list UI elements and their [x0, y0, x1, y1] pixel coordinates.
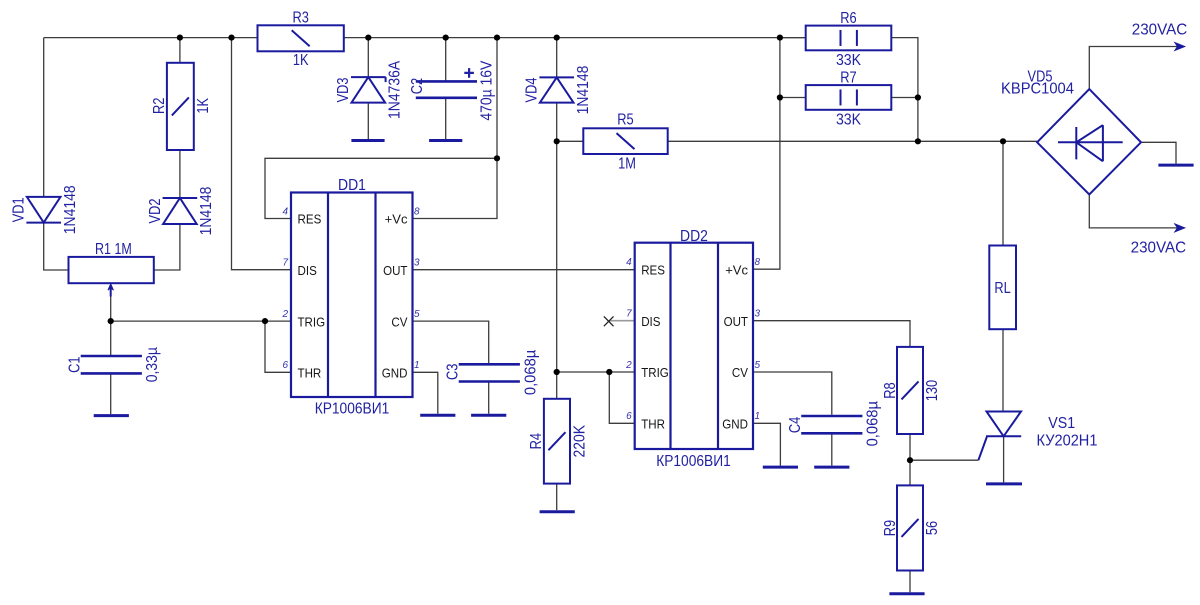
arrow 230VAC top: [1175, 43, 1184, 50]
svg-text:DIS: DIS: [641, 314, 661, 329]
wire: GND2 to ground: [753, 423, 780, 465]
ground (VD3): [351, 139, 384, 142]
wire: Vcc loop vertical: [413, 38, 498, 219]
svg-text:RES: RES: [641, 262, 665, 277]
wire: C2 to ground: [445, 98, 447, 139]
wire: bridge right to ground: [1141, 142, 1176, 163]
svg-text:OUT: OUT: [724, 314, 748, 329]
resistor R6: [806, 26, 892, 51]
svg-text:+Vc: +Vc: [385, 212, 408, 227]
svg-text:C1: C1: [66, 356, 83, 372]
ground (C4): [814, 466, 849, 469]
wire: left vertical to VD1: [43, 38, 45, 197]
svg-text:R7: R7: [840, 69, 856, 86]
wire: THR1 loop: [265, 321, 291, 372]
node: RL tap: [1000, 138, 1006, 144]
wire: R4 to ground: [556, 484, 558, 511]
svg-text:6: 6: [626, 411, 632, 422]
svg-text:0,068µ: 0,068µ: [522, 350, 539, 395]
svg-text:1N4736A: 1N4736A: [386, 61, 403, 119]
wire: R1 wiper shaft: [110, 297, 112, 322]
wire: C1 to ground: [110, 373, 112, 414]
svg-text:VD3: VD3: [335, 77, 352, 102]
load RL: [989, 246, 1016, 330]
wire: CV2 to C4: [753, 372, 832, 415]
node: DIS1/top rail: [228, 35, 234, 41]
svg-text:R3: R3: [293, 10, 309, 27]
svg-text:0,068µ: 0,068µ: [864, 401, 881, 446]
wire: C3 to ground: [488, 382, 490, 414]
node: R2/top rail: [177, 35, 183, 41]
svg-text:130: 130: [924, 380, 941, 401]
wire: VD2 bottom to R1 right: [154, 224, 180, 270]
svg-text:R9: R9: [882, 520, 899, 536]
capacitor C2: [416, 80, 477, 83]
arrow 230VAC bottom: [1175, 224, 1184, 231]
node: R5 left: [554, 138, 560, 144]
node: R7 left: [777, 94, 783, 100]
node: R8/R9/gate: [907, 457, 913, 463]
svg-text:R2: R2: [151, 98, 168, 114]
wire: THR2 loop: [609, 372, 634, 423]
node: RES1 loop tee: [494, 155, 500, 161]
svg-text:3: 3: [414, 258, 420, 269]
node: R1 wiper/C1/TRIG1: [108, 318, 114, 324]
svg-text:1M: 1M: [618, 156, 636, 173]
svg-text:КР1006ВИ1: КР1006ВИ1: [315, 400, 390, 417]
svg-text:OUT: OUT: [383, 263, 407, 278]
op-amp/timer DD2 body: [635, 243, 753, 449]
ground (R4): [540, 510, 575, 513]
ground (DD2 GND): [763, 466, 798, 469]
node: VD3/top rail: [365, 35, 371, 41]
svg-text:R4: R4: [528, 433, 545, 449]
wire: CV1 to C3: [413, 321, 489, 363]
svg-text:230VAC: 230VAC: [1132, 22, 1188, 39]
svg-text:8: 8: [755, 257, 761, 268]
svg-text:GND: GND: [722, 417, 748, 432]
svg-text:TRIG: TRIG: [641, 365, 669, 380]
resistor R5: [583, 128, 667, 154]
ground (VS1): [986, 482, 1022, 485]
wire: R2 bottom to VD2: [179, 150, 181, 198]
capacitor C1: [81, 355, 142, 358]
svg-text:DD1: DD1: [338, 177, 366, 194]
wire: R8 bottom to R9: [909, 434, 911, 485]
svg-text:1: 1: [414, 360, 420, 371]
bridge rectifier VD5 diamond: [1037, 89, 1141, 194]
wire: R2 top stub: [179, 38, 181, 63]
op-amp/timer DD1 body: [291, 193, 413, 398]
node: VD4/top rail: [554, 35, 560, 41]
svg-text:56: 56: [924, 521, 941, 535]
ground (R9): [889, 592, 924, 595]
svg-text:THR: THR: [641, 417, 665, 432]
svg-text:GND: GND: [382, 366, 408, 381]
node: C2/top rail: [443, 35, 449, 41]
svg-text:VD1: VD1: [11, 197, 28, 222]
wire: VD4 down through R5 node to R4: [556, 103, 558, 399]
node: THR2 loop tee: [606, 369, 612, 375]
svg-text:470µ 16V: 470µ 16V: [478, 60, 495, 120]
thyristor VS1: [987, 412, 1022, 437]
svg-text:КР1006ВИ1: КР1006ВИ1: [656, 453, 731, 470]
resistor R8: [897, 347, 923, 434]
svg-text:1K: 1K: [293, 52, 309, 69]
bridge VD5 inner diode: [1058, 125, 1123, 161]
svg-text:R8: R8: [882, 382, 899, 398]
wire: TRIG2 rail: [557, 371, 635, 373]
wire: VD3 to ground: [367, 103, 369, 140]
wire: bridge top to AC: [1089, 47, 1177, 90]
svg-text:0,33µ: 0,33µ: [144, 347, 161, 382]
no-connect X on DIS2: [604, 316, 614, 326]
capacitor C3: [459, 363, 520, 366]
svg-text:7: 7: [626, 309, 632, 320]
diode VD2: [163, 198, 197, 224]
gate lead of VS1: [978, 437, 986, 460]
wire: top-middle rail: [344, 37, 806, 39]
wire: R6 right to rail: [891, 38, 918, 142]
svg-text:230VAC: 230VAC: [1131, 239, 1187, 256]
resistor R9: [897, 485, 923, 570]
svg-text:2: 2: [625, 360, 632, 371]
svg-text:TRIG: TRIG: [298, 314, 326, 329]
node: Vcc2/top rail: [777, 35, 783, 41]
svg-text:C3: C3: [444, 364, 461, 380]
wire: VD1 cathode to R1 left: [44, 223, 69, 270]
svg-text:R5: R5: [617, 112, 633, 129]
svg-text:6: 6: [282, 360, 288, 371]
ground (C1): [94, 414, 129, 417]
node: THR1 loop tee: [262, 318, 268, 324]
svg-text:C2: C2: [409, 78, 426, 94]
svg-text:8: 8: [414, 206, 420, 217]
zener diode VD3: [352, 77, 386, 103]
resistor R7: [806, 85, 892, 110]
wiper arrow of R1: [110, 286, 112, 297]
svg-text:DD2: DD2: [680, 228, 708, 245]
diode VD1: [27, 197, 61, 223]
svg-text:VD2: VD2: [147, 198, 164, 223]
wire: R7 right stub: [891, 97, 918, 99]
node: Vcc loop/top rail: [494, 35, 500, 41]
wire: VS1 cathode to ground: [1003, 436, 1005, 482]
svg-text:DIS: DIS: [298, 263, 318, 278]
wire: TRIG1 rail: [111, 320, 291, 322]
ground (C3): [471, 414, 506, 417]
svg-text:220K: 220K: [571, 425, 588, 458]
svg-text:RL: RL: [994, 280, 1010, 297]
resistor R4: [544, 399, 570, 484]
potentiometer R1: [69, 257, 154, 283]
svg-text:R6: R6: [840, 10, 856, 27]
svg-text:VS1: VS1: [1048, 415, 1075, 432]
svg-text:KBPC1004: KBPC1004: [1001, 80, 1074, 97]
wire: VD4 top stub: [556, 38, 558, 78]
svg-text:C4: C4: [787, 417, 804, 433]
wire: R9 to ground: [909, 571, 911, 593]
svg-text:3: 3: [755, 309, 761, 320]
ground (DD1 GND): [420, 414, 455, 417]
wire: gate of VS1: [910, 459, 978, 461]
ground (C2): [429, 139, 462, 142]
svg-text:33K: 33K: [836, 52, 861, 69]
svg-text:1: 1: [755, 411, 761, 422]
plus sign of C2: [464, 68, 474, 78]
node: R6R7 right/rail: [915, 138, 921, 144]
resistor R3: [258, 25, 344, 51]
wire: top-left rail: [44, 37, 258, 39]
wire: DIS1 vertical: [232, 38, 292, 270]
svg-text:THR: THR: [298, 366, 322, 381]
wire: R5 left stub: [557, 140, 584, 142]
wire: RL top: [1002, 141, 1004, 245]
wire: DIS2 no-connect stub: [609, 320, 634, 322]
wire: bridge bottom to AC: [1089, 194, 1177, 228]
svg-text:1N4148: 1N4148: [62, 185, 79, 234]
node: R7 right: [915, 94, 921, 100]
wire: RES1 loop: [265, 158, 497, 218]
resistor R2: [167, 63, 194, 150]
svg-text:1N4148: 1N4148: [198, 187, 215, 236]
svg-text:4: 4: [626, 257, 632, 268]
wire: C1 top stub: [110, 321, 112, 356]
svg-text:CV: CV: [391, 314, 407, 329]
svg-text:R1 1M: R1 1M: [95, 241, 132, 258]
svg-text:33K: 33K: [836, 112, 861, 129]
wire: R6 left stub: [780, 37, 806, 39]
wire: R7 left stub: [780, 97, 806, 99]
wire: C4 to ground: [831, 433, 833, 465]
svg-text:CV: CV: [732, 365, 748, 380]
wire: C2 top stub: [445, 38, 447, 82]
capacitor C4: [801, 415, 862, 418]
svg-text:2: 2: [281, 309, 288, 320]
svg-text:RES: RES: [298, 212, 322, 227]
svg-text:1N4148: 1N4148: [575, 66, 592, 115]
svg-text:5: 5: [755, 360, 761, 371]
svg-text:+Vc: +Vc: [725, 262, 748, 277]
wire: GND1 to ground: [413, 372, 438, 413]
wire: R5 right rail to bridge: [668, 140, 1037, 142]
diode VD4: [540, 77, 574, 102]
node: TRIG2 rail left: [554, 369, 560, 375]
wire: OUT1 to RES2: [413, 269, 635, 271]
wire: VD3 top stub: [367, 38, 369, 78]
svg-text:4: 4: [282, 206, 288, 217]
svg-text:КУ202Н1: КУ202Н1: [1037, 432, 1098, 449]
svg-text:7: 7: [282, 258, 288, 269]
wire: RL bottom to VS1: [1002, 329, 1004, 411]
wire: OUT2 to R8: [753, 321, 910, 347]
wire: Vcc2 vertical: [753, 38, 780, 270]
svg-text:VD4: VD4: [524, 77, 541, 102]
svg-text:5: 5: [414, 309, 420, 320]
svg-text:1K: 1K: [195, 98, 212, 114]
ground (bridge): [1158, 164, 1193, 167]
